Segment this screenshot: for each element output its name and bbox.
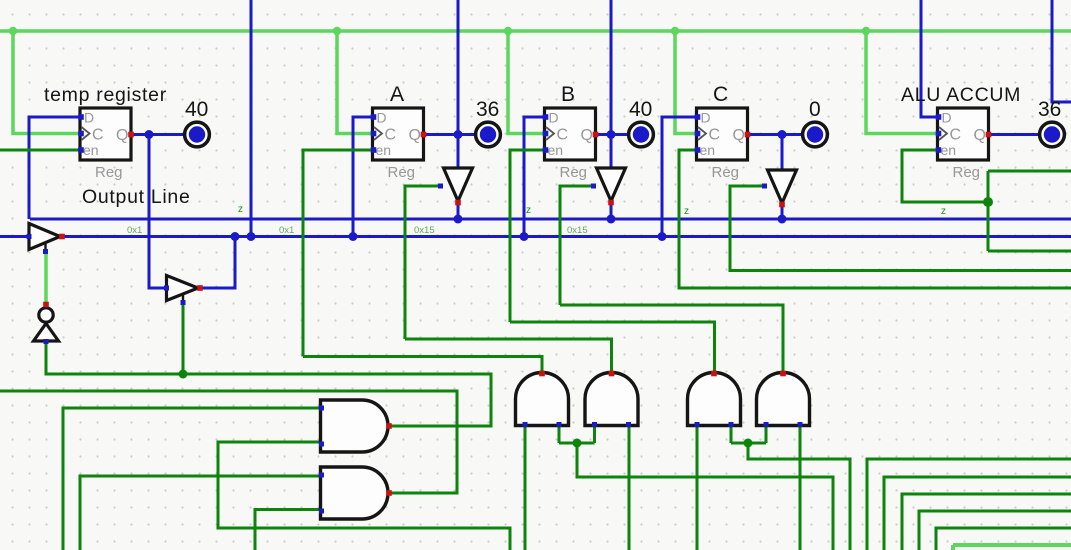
wire gate1 right input drop <box>558 425 561 443</box>
svg-text:0: 0 <box>809 98 821 121</box>
probe ALU ACCUM output value 36 <box>1040 122 1065 147</box>
wire ALU en net lower branch to right edge <box>988 250 1071 253</box>
wire tie gate3R gate4L <box>731 442 766 445</box>
svg-text:D: D <box>549 110 559 126</box>
wire buffer A control net <box>405 186 441 339</box>
wire clock to register A C <box>337 31 373 134</box>
junction clock bus x508 <box>504 27 512 35</box>
wire temp register D input <box>29 117 81 219</box>
svg-text:Q: Q <box>974 127 986 144</box>
wire register B D input <box>524 117 545 237</box>
register A <box>371 108 427 181</box>
wire lower bus left segment <box>0 235 30 238</box>
svg-text:ALU ACCUM: ALU ACCUM <box>901 84 1021 106</box>
wire clock to ALU ACCUM C <box>866 31 938 134</box>
svg-text:40: 40 <box>185 98 208 121</box>
AND gate G2 facing up <box>585 371 638 427</box>
wire buffer A output to upper bus <box>457 201 460 219</box>
wire lower bus right of buffer1 <box>61 235 1071 238</box>
wire stair 1 right edge <box>867 459 1071 550</box>
wire register B Q to probe <box>596 133 629 136</box>
svg-text:z: z <box>684 206 689 217</box>
wire clock to register B C <box>508 31 545 134</box>
junction B Q buffer <box>607 130 616 139</box>
svg-text:Reg: Reg <box>712 164 740 181</box>
svg-text:36: 36 <box>1038 98 1061 121</box>
svg-text:Q: Q <box>733 127 745 144</box>
junction clock bus x13 <box>9 27 17 35</box>
svg-text:Output Line: Output Line <box>82 186 191 208</box>
svg-text:z: z <box>941 206 946 217</box>
wire gate4 left input drop <box>765 425 768 443</box>
svg-text:Reg: Reg <box>95 164 123 181</box>
svg-text:en: en <box>941 142 957 158</box>
wire gate3 right input drop <box>730 425 733 443</box>
junction clock bus x866 <box>862 27 870 35</box>
buffer B1 on lower bus facing right <box>27 224 65 255</box>
svg-text:D: D <box>942 110 952 126</box>
wire upper bus Output Line z <box>30 218 1071 221</box>
svg-text:0x15: 0x15 <box>414 225 435 236</box>
svg-text:Q: Q <box>581 127 593 144</box>
wire AND1 top input from bottom edge <box>63 408 321 550</box>
controlled buffer for register C facing down <box>762 170 797 207</box>
wire buffer B output to upper bus <box>610 201 613 219</box>
wire ALU en net upper branch to right edge <box>988 170 1071 173</box>
wire gate3 left input from bottom edge <box>696 425 699 550</box>
svg-text:C: C <box>385 127 397 144</box>
probe A output value 36 <box>476 122 501 147</box>
svg-text:C: C <box>709 127 721 144</box>
svg-text:D: D <box>84 110 94 126</box>
svg-text:C: C <box>713 83 729 106</box>
svg-text:40: 40 <box>629 98 652 121</box>
wire vertical from top x251 <box>250 0 253 237</box>
wire register C en net to right edge <box>679 150 1071 288</box>
wire bottom right light green <box>953 543 1071 547</box>
register C <box>695 108 751 181</box>
AND gate G5 facing right <box>319 400 392 452</box>
wire inverter output to buffer1 control <box>44 251 48 305</box>
junction clock bus x675 <box>671 27 679 35</box>
wire stair 3 right edge <box>902 494 1071 550</box>
wire register A D input <box>353 117 373 237</box>
svg-text:D: D <box>701 110 711 126</box>
wire C Q junction down to buffer C <box>781 135 784 171</box>
svg-text:Reg: Reg <box>388 164 416 181</box>
wire temp register Q to probe <box>131 133 184 136</box>
AND gate G3 facing up <box>688 371 741 427</box>
junction C Q buffer <box>778 130 787 139</box>
wire gate4 right input from bottom edge <box>799 425 802 550</box>
svg-text:z: z <box>238 204 243 215</box>
wire ALU ACCUM Q to probe <box>989 133 1040 136</box>
svg-text:C: C <box>557 127 569 144</box>
svg-text:en: en <box>83 142 99 158</box>
AND gate G1 facing up <box>516 371 569 427</box>
wire bottom right light green drop <box>951 545 955 550</box>
wire clock to register C C <box>675 31 697 134</box>
junction B D lower bus <box>520 232 529 241</box>
probe temp output value 40 <box>185 122 210 147</box>
probe B output value 40 <box>629 122 654 147</box>
wire buffer C control net to right edge <box>730 186 1071 271</box>
junction x251 lower bus <box>247 232 256 241</box>
wire AND1 bottom input net <box>218 442 510 550</box>
wire stair 2 right edge <box>884 477 1071 550</box>
svg-text:C: C <box>92 127 104 144</box>
wire stair 4 right edge <box>919 511 1071 550</box>
wire clock to temp register C <box>13 31 81 134</box>
wire ALU en vertical link <box>987 171 990 251</box>
svg-text:36: 36 <box>476 98 499 121</box>
wire register C Q to probe <box>749 133 803 136</box>
svg-text:z: z <box>526 205 531 216</box>
junction buffer C out upper bus <box>778 215 787 224</box>
wire register A en net <box>303 150 373 357</box>
junction gate34 inputs <box>744 439 753 448</box>
wire vertical from top x458 to buffer A <box>457 0 460 168</box>
register B <box>543 108 599 181</box>
wire AND1 output net to inverter input <box>46 341 491 426</box>
svg-text:Reg: Reg <box>953 164 981 181</box>
junction temp Q <box>145 130 154 139</box>
svg-text:0x1: 0x1 <box>279 225 294 236</box>
svg-text:B: B <box>561 83 575 106</box>
svg-text:en: en <box>700 142 716 158</box>
wire register B en net <box>510 150 545 322</box>
wire buffer C output to upper bus <box>781 203 784 219</box>
wire tie gate1R gate2L <box>559 442 595 445</box>
wire clock bus top horizontal <box>0 29 1071 33</box>
buffer B2 facing right <box>164 276 203 306</box>
junction A D lower bus <box>349 232 358 241</box>
junction buffer2 control <box>179 370 188 379</box>
junction gate12 inputs <box>573 439 582 448</box>
controlled buffer for register A facing down <box>438 168 473 205</box>
svg-text:en: en <box>376 142 392 158</box>
svg-text:0x15: 0x15 <box>567 225 588 236</box>
svg-text:0x1: 0x1 <box>127 225 142 236</box>
AND gate G4 facing up <box>757 371 810 427</box>
svg-text:temp register: temp register <box>44 84 167 106</box>
svg-text:Q: Q <box>409 127 421 144</box>
wire top right corner <box>1052 0 1071 102</box>
inverter U1 facing up with bubble <box>34 302 59 344</box>
wire temp register en from left edge <box>0 149 81 152</box>
junction clock bus x337 <box>333 27 341 35</box>
svg-text:Q: Q <box>116 127 128 144</box>
register temp <box>78 108 134 181</box>
wire gate1 left input from bottom edge <box>524 425 527 550</box>
wire vertical from top x611 to buffer B <box>610 0 613 168</box>
wire register A Q to probe <box>425 133 476 136</box>
junction buffer B out upper bus <box>607 215 616 224</box>
AND gate G6 facing right <box>319 467 392 519</box>
wire buffer B control net <box>560 186 594 305</box>
wire shared input net 2 down right <box>748 443 850 550</box>
wire temp Q down to buffer2 input <box>149 135 166 289</box>
wire gate2 right input from bottom edge <box>628 425 631 550</box>
wire gate4 output to buffer B control <box>560 305 783 374</box>
junction buffer2 lower bus <box>231 232 240 241</box>
junction C D lower bus <box>658 232 667 241</box>
wire gate2 output to buffer A control <box>405 339 612 374</box>
wire buffer2 control <box>182 303 185 374</box>
wire AND2 bottom input from bottom edge <box>255 510 321 550</box>
wire ALU ACCUM D input from top <box>921 0 938 117</box>
svg-text:A: A <box>390 83 404 106</box>
wire stair 5 right edge <box>936 528 1071 550</box>
wire gate3 output to B en <box>510 322 715 374</box>
svg-text:Reg: Reg <box>560 164 588 181</box>
wire AND2 output net to left edge <box>0 391 457 493</box>
wire buffer2 output loop to lower bus <box>200 237 235 289</box>
wire register C D input <box>662 117 697 237</box>
wire gate1 output to A en <box>303 357 542 375</box>
wire AND2 top input from bottom edge <box>80 476 321 550</box>
wire gate2 left input drop <box>593 425 596 443</box>
wire ALU ACCUM en net <box>902 150 988 202</box>
register ALU ACCUM <box>936 108 992 181</box>
junction ALU en <box>983 197 993 207</box>
svg-text:D: D <box>377 110 387 126</box>
junction buffer A out upper bus <box>454 215 463 224</box>
junction A Q buffer <box>454 130 463 139</box>
wire shared input net down right <box>577 443 833 550</box>
svg-text:en: en <box>548 142 564 158</box>
controlled buffer for register B facing down <box>591 168 626 205</box>
probe C output value 0 <box>803 122 828 147</box>
svg-text:C: C <box>950 127 962 144</box>
